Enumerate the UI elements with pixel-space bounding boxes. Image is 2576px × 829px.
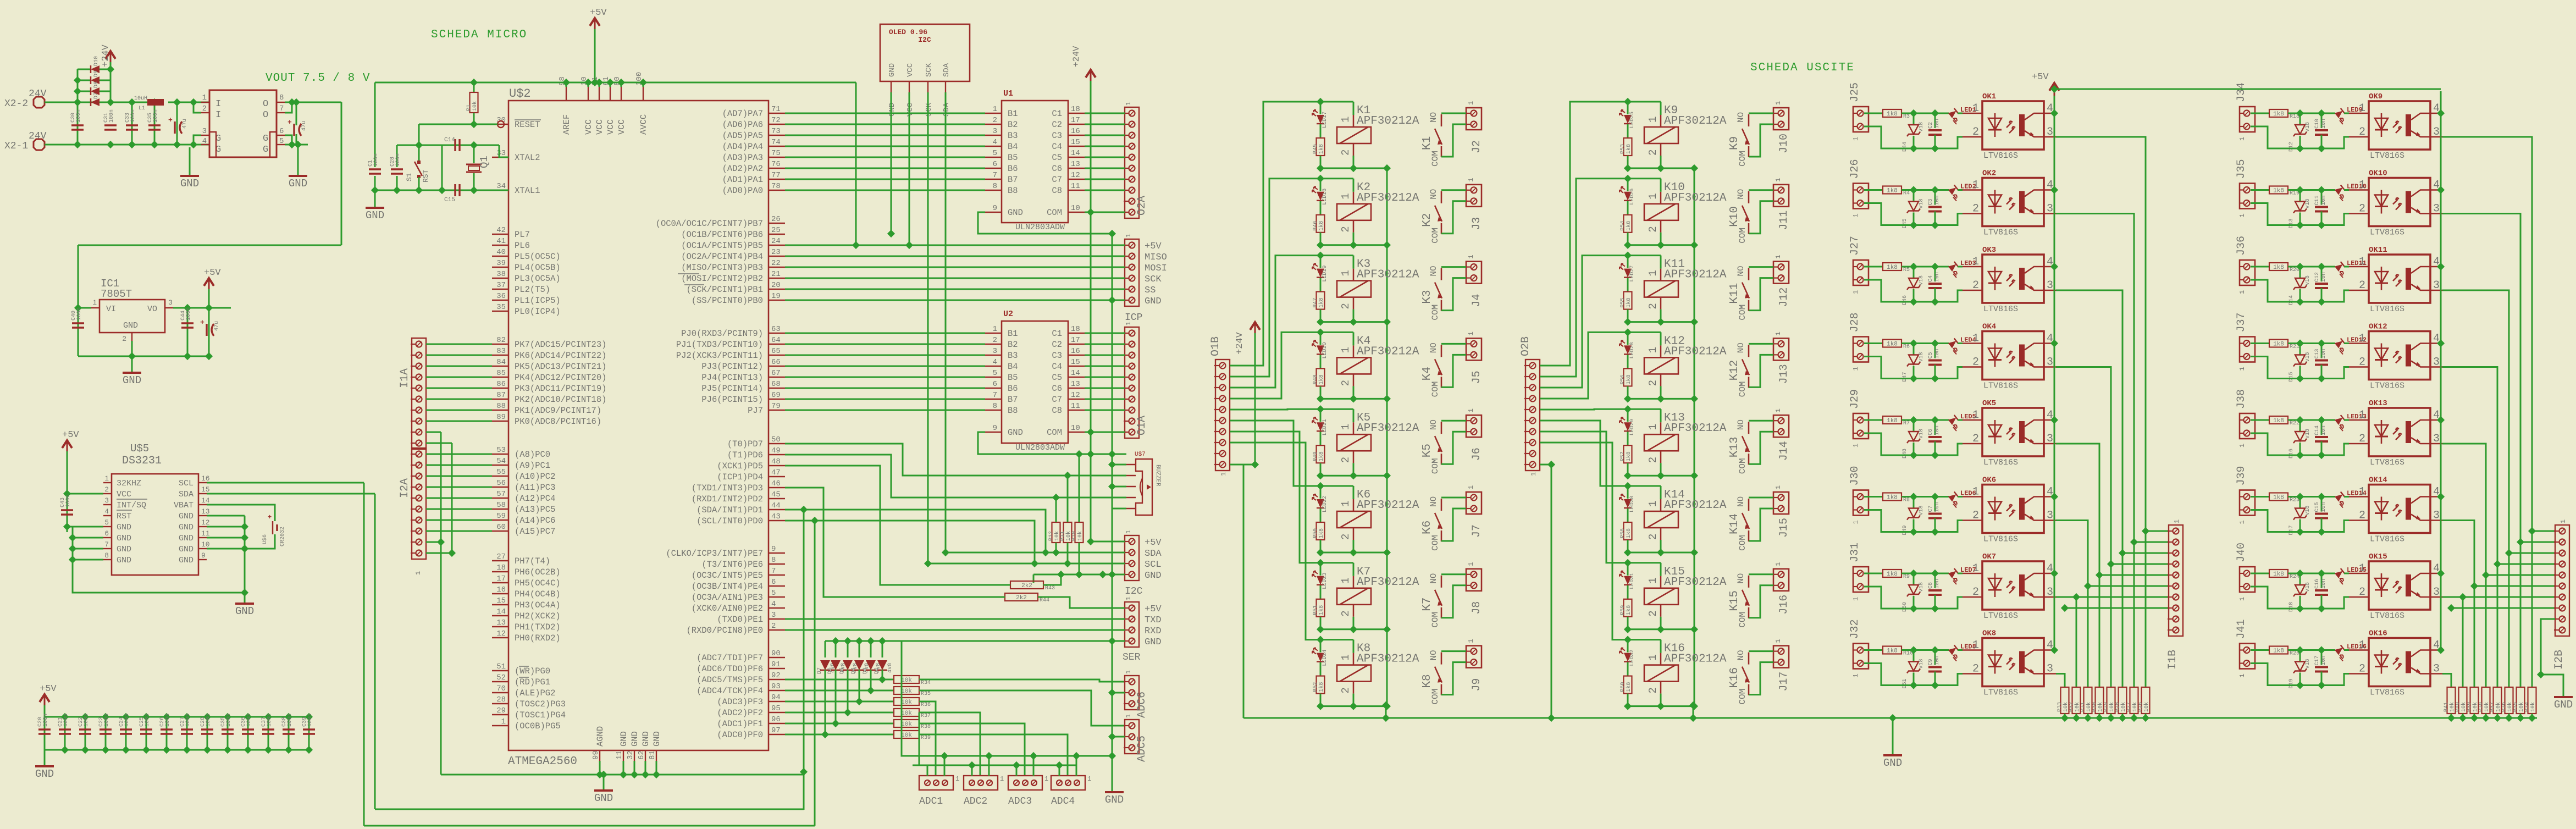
svg-text:10n: 10n (1934, 655, 1941, 665)
svg-text:2: 2 (2359, 356, 2365, 369)
svg-text:D2: D2 (874, 667, 880, 674)
supply +5V IC1 (204, 268, 221, 291)
wire coil top (1660, 179, 1662, 192)
junction (1624, 252, 1632, 259)
svg-text:77: 77 (771, 171, 781, 180)
svg-text:K15: K15 (1728, 590, 1741, 611)
wire (1913, 420, 1915, 432)
resistor R53 (1620, 138, 1632, 156)
svg-text:J37: J37 (2235, 312, 2248, 332)
junction (1931, 493, 1939, 500)
junction (107, 98, 114, 106)
svg-text:PJ7: PJ7 (748, 406, 763, 416)
svg-text:20: 20 (771, 281, 781, 290)
svg-text:79: 79 (771, 402, 781, 411)
LED LED21 (1312, 417, 1328, 435)
wire SCL row (928, 563, 1125, 565)
junction (2437, 263, 2445, 270)
wire (105, 717, 107, 750)
svg-text:13: 13 (201, 507, 210, 516)
wire (1627, 156, 1629, 168)
svg-text:95: 95 (771, 704, 781, 713)
connector J7 (1466, 492, 1482, 514)
wire coil bottom (1353, 310, 1355, 322)
IC1 pin2 (131, 333, 132, 341)
svg-text:3: 3 (2433, 279, 2440, 292)
junction (1690, 395, 1698, 402)
svg-text:100n: 100n (130, 109, 136, 123)
wire (1627, 278, 1629, 292)
contact K2 (1421, 189, 1442, 244)
connector J11 (1773, 185, 1789, 207)
wire (166, 717, 168, 750)
wire reset row (419, 124, 497, 125)
junction (142, 713, 150, 721)
wire bottom node (1320, 475, 1387, 477)
svg-text:91: 91 (771, 660, 781, 669)
junction (1690, 164, 1698, 172)
svg-text:R1: R1 (466, 104, 472, 111)
wire RTC left GND bus (73, 527, 245, 593)
wire (2321, 595, 2323, 609)
connector J12 (1773, 262, 1789, 284)
junction (438, 186, 446, 194)
svg-text:10k: 10k (901, 699, 912, 706)
junction (1383, 703, 1391, 710)
svg-text:23: 23 (771, 248, 781, 257)
svg-text:J13: J13 (1778, 364, 1790, 384)
svg-text:12: 12 (1071, 171, 1080, 180)
wire (1033, 574, 1035, 583)
wire SDA to riser (207, 493, 375, 495)
wire (1627, 256, 1629, 268)
connector ICP (1124, 239, 1139, 306)
junction (74, 304, 82, 312)
indicator LED14 (2335, 491, 2345, 501)
svg-text:B1: B1 (1008, 329, 1018, 339)
svg-text:PJ5(PCINT14): PJ5(PCINT14) (701, 384, 763, 394)
junction (2470, 582, 2478, 590)
svg-text:11: 11 (201, 529, 210, 538)
svg-text:10n: 10n (2321, 425, 2327, 435)
OK8 pins (1963, 639, 2056, 676)
svg-text:LED32: LED32 (1629, 650, 1635, 666)
wire OK5 out (2056, 444, 2099, 687)
svg-text:C6: C6 (1928, 429, 1934, 435)
svg-text:LED29: LED29 (1629, 419, 1635, 435)
relay pin stubs (1660, 576, 1662, 588)
OK12 pins (2349, 333, 2442, 369)
wire NO (1749, 497, 1773, 499)
junction (905, 241, 913, 249)
svg-text:1: 1 (1340, 654, 1352, 660)
svg-text:1: 1 (1775, 178, 1782, 182)
svg-text:R54: R54 (1620, 221, 1626, 231)
wire OK3 out (2056, 290, 2122, 687)
capacitor C22 (78, 714, 91, 734)
wire (1901, 113, 1949, 114)
svg-text:2: 2 (1972, 586, 1979, 599)
wire I2A pin10 (426, 552, 452, 554)
junction (1624, 472, 1632, 479)
svg-text:(ADC2)PF2: (ADC2)PF2 (717, 708, 763, 718)
svg-text:GND: GND (179, 556, 194, 565)
junction (69, 556, 76, 563)
svg-text:COM: COM (1738, 151, 1748, 167)
junction (393, 186, 401, 194)
svg-text:1: 1 (1340, 193, 1352, 199)
regulator IC1 7805T (99, 300, 165, 333)
junction (2107, 560, 2115, 568)
svg-text:7: 7 (279, 104, 284, 113)
svg-text:2: 2 (2359, 663, 2365, 676)
svg-text:1: 1 (1972, 179, 1979, 192)
wire OLED SCK down (927, 92, 929, 563)
svg-text:62: 62 (637, 750, 646, 760)
junction (190, 141, 197, 148)
wire PD3 to R44 (785, 488, 1005, 597)
junction (942, 549, 949, 556)
wire (1627, 409, 1629, 422)
junction (2096, 571, 2103, 579)
svg-text:D51: D51 (1902, 678, 1908, 688)
svg-text:1: 1 (1467, 485, 1475, 489)
resistor R52 (1313, 676, 1325, 694)
junction (2084, 582, 2092, 590)
svg-text:C6: C6 (1052, 384, 1062, 394)
junction (2459, 714, 2467, 722)
svg-text:1: 1 (1972, 256, 1979, 268)
wire (2497, 714, 2498, 718)
svg-text:44: 44 (771, 501, 781, 510)
svg-text:35: 35 (496, 303, 506, 312)
wire bottom node (1320, 244, 1387, 246)
wire (1320, 355, 1322, 368)
svg-text:6: 6 (104, 529, 109, 538)
junction (142, 746, 150, 754)
resistor R22 (2269, 416, 2299, 427)
header O1B (1214, 360, 1230, 471)
capacitor C23 (98, 714, 112, 734)
junction (1889, 714, 1897, 722)
wire bottom return (1864, 126, 1963, 148)
svg-text:XTAL1: XTAL1 (515, 186, 540, 196)
wire drive K5 (1230, 408, 1320, 411)
wire (2321, 190, 2323, 205)
OK4 pins (1963, 333, 2056, 369)
driver U1 ULN2803ADW (1002, 101, 1068, 223)
wire (296, 134, 297, 145)
svg-text:K3: K3 (1421, 290, 1434, 303)
junction (1030, 752, 1037, 760)
contact K14 (1728, 496, 1750, 551)
junction (1087, 208, 1094, 216)
svg-text:OK13: OK13 (2369, 399, 2387, 408)
svg-text:64: 64 (771, 336, 781, 345)
svg-text:R34: R34 (2524, 702, 2530, 712)
connector J15 (1773, 492, 1789, 514)
junction (800, 768, 808, 776)
relay pin stubs (1353, 422, 1355, 434)
svg-text:17: 17 (1071, 336, 1080, 345)
svg-text:1: 1 (1000, 775, 1004, 783)
capacitor C17 (2314, 655, 2328, 671)
wire tap to I1B (2111, 563, 2169, 565)
resistor R34 (2524, 687, 2536, 714)
junction (1073, 752, 1080, 760)
wire ADC1 signal (919, 701, 936, 776)
wire coil bottom (1353, 463, 1355, 476)
wire top node (1320, 408, 1353, 410)
svg-text:J15: J15 (1778, 518, 1790, 538)
junction (2050, 570, 2058, 577)
wire pin4 (2441, 113, 2442, 114)
junction (2318, 109, 2325, 117)
svg-text:13: 13 (1071, 160, 1080, 169)
LED LED18 (1312, 187, 1328, 205)
svg-text:C4: C4 (1928, 275, 1934, 282)
module notch (270, 132, 277, 157)
OK2 pins (1963, 179, 2056, 215)
resistor R7 (1883, 416, 1910, 427)
wire (78, 91, 91, 92)
wire tap to I1B (2088, 585, 2169, 587)
connector J36 (2240, 260, 2255, 285)
svg-text:100n: 100n (186, 307, 192, 320)
svg-text:60: 60 (496, 523, 506, 532)
svg-text:2: 2 (2359, 126, 2365, 139)
wire SCL up (814, 735, 816, 826)
wire SDA net (785, 510, 1046, 552)
junction (1317, 328, 1324, 336)
wire (1958, 342, 1963, 344)
wire pin4 (2054, 113, 2056, 114)
svg-text:+5V: +5V (1145, 604, 1162, 615)
svg-text:NO: NO (1736, 650, 1746, 660)
svg-text:(MISO/PCINT3)PB3: (MISO/PCINT3)PB3 (681, 263, 763, 273)
svg-text:10uH: 10uH (134, 96, 147, 102)
wire (2288, 573, 2335, 574)
wire NO (1749, 113, 1773, 114)
wire xtal bottom rail (375, 190, 508, 191)
svg-text:8: 8 (993, 182, 997, 191)
wire drive K15 (1540, 432, 1628, 563)
svg-text:3: 3 (771, 611, 776, 620)
svg-text:1k8: 1k8 (1626, 221, 1632, 231)
svg-text:I2C: I2C (1125, 586, 1143, 597)
junction (2494, 714, 2501, 722)
svg-text:1k8: 1k8 (2273, 264, 2284, 271)
svg-text:10k: 10k (2461, 702, 2467, 712)
svg-text:(A9)PC1: (A9)PC1 (515, 461, 550, 471)
wire SER GND / zener bus (825, 640, 1125, 642)
svg-text:2: 2 (1340, 687, 1352, 693)
svg-text:SDA: SDA (942, 63, 951, 77)
svg-text:1k8: 1k8 (2273, 341, 2284, 348)
wire (1320, 233, 1322, 245)
wire (2288, 266, 2335, 268)
junction (600, 771, 607, 778)
wire +5V to caps (374, 82, 376, 167)
svg-text:+5V: +5V (1145, 538, 1162, 548)
svg-text:2: 2 (1647, 380, 1659, 386)
svg-text:14: 14 (1071, 149, 1080, 158)
resistor R45 (1313, 138, 1325, 156)
svg-text:6: 6 (993, 380, 997, 389)
junction (1910, 298, 1917, 306)
resistor R23 (2269, 493, 2299, 504)
svg-text:v18: v18 (1919, 275, 1925, 285)
junction (642, 771, 649, 778)
junction (821, 731, 829, 738)
zener diode D16 (2288, 429, 2311, 458)
junction (2505, 714, 2513, 722)
svg-text:GND: GND (641, 731, 651, 747)
svg-text:D50: D50 (1902, 602, 1908, 612)
junction (151, 98, 158, 106)
svg-text:K6: K6 (1421, 521, 1434, 534)
junction (2130, 714, 2138, 722)
svg-text:D7: D7 (93, 92, 99, 99)
wire (1958, 573, 1963, 574)
wire J in (1864, 573, 1883, 574)
junction (1108, 461, 1116, 468)
svg-text:GND: GND (1883, 757, 1902, 769)
junction (102, 713, 109, 721)
svg-text:(A14)PC6: (A14)PC6 (515, 516, 555, 526)
wire J in (1864, 649, 1883, 651)
capacitor C5 (1928, 349, 1942, 364)
svg-text:APF30212A: APF30212A (1664, 192, 1727, 205)
junction (1931, 416, 1939, 424)
svg-text:C5: C5 (1928, 352, 1934, 358)
svg-text:2: 2 (1340, 303, 1352, 309)
junction (1075, 571, 1083, 578)
junction (1624, 328, 1632, 336)
connector J9 (1466, 646, 1482, 668)
svg-text:AGND: AGND (595, 726, 605, 747)
junction (855, 698, 863, 705)
svg-text:APF30212A: APF30212A (1357, 192, 1419, 205)
buzzer U$7 (1135, 451, 1161, 515)
svg-text:R38: R38 (2478, 702, 2484, 712)
svg-text:(TOSC2)PG3: (TOSC2)PG3 (515, 699, 566, 709)
svg-text:U2: U2 (1003, 310, 1013, 319)
svg-text:100n: 100n (84, 714, 90, 727)
svg-text:4: 4 (104, 507, 109, 516)
svg-text:1: 1 (1647, 117, 1659, 123)
crystal Q1 (466, 156, 490, 172)
svg-text:LED23: LED23 (1322, 573, 1328, 589)
wire (441, 145, 443, 190)
wire COM (1749, 662, 1773, 695)
optocoupler OK2 LTV816S (1982, 169, 2044, 237)
junction (1055, 761, 1063, 769)
wire (2299, 420, 2301, 432)
junction (811, 517, 819, 524)
relay K16 APF30212A (1644, 643, 1727, 694)
wire (2321, 518, 2323, 532)
OK3 pins (1963, 256, 2056, 292)
svg-text:76: 76 (771, 160, 781, 169)
indicator LED5 (1948, 415, 1958, 425)
junction (224, 746, 231, 754)
capacitor C15 (455, 184, 460, 196)
wire (859, 641, 860, 657)
junction (2318, 416, 2325, 424)
svg-text:PJ2(XCK3/PCINT11): PJ2(XCK3/PCINT11) (676, 351, 763, 361)
svg-text:OLED 0.96: OLED 0.96 (889, 28, 927, 36)
svg-text:58: 58 (496, 501, 506, 510)
svg-text:2: 2 (1972, 126, 1979, 139)
junction (1657, 241, 1665, 249)
wire drive K9 (1540, 102, 1628, 366)
wire pin7 (285, 102, 292, 113)
junction (1931, 681, 1939, 689)
wires I2A to PC pins (426, 454, 492, 531)
capacitor C37 (261, 714, 274, 734)
wire GND rail (1112, 234, 1113, 792)
resistor R18 (2269, 109, 2299, 120)
svg-text:97: 97 (771, 726, 781, 735)
svg-text:J34: J34 (2235, 82, 2248, 102)
relay K7 APF30212A (1337, 566, 1419, 617)
wire relay common rail (1694, 168, 1695, 706)
svg-text:GND: GND (117, 523, 131, 532)
svg-text:1k8: 1k8 (1318, 374, 1325, 384)
svg-text:2: 2 (202, 104, 207, 113)
svg-text:88: 88 (496, 402, 506, 411)
wire (186, 717, 188, 750)
svg-text:AVCC: AVCC (639, 114, 649, 135)
wire tap to I2B (2532, 530, 2555, 532)
capacitor C35 (147, 109, 161, 130)
wire COM (1441, 278, 1466, 311)
junction (81, 713, 89, 721)
svg-text:SCL: SCL (1145, 560, 1162, 570)
svg-text:LTV816S: LTV816S (1983, 458, 2018, 467)
svg-text:OK15: OK15 (2369, 552, 2387, 561)
svg-text:47u: 47u (214, 321, 220, 331)
wire TXD (785, 618, 1125, 620)
svg-text:16: 16 (201, 474, 210, 483)
wire top node (1628, 331, 1661, 333)
svg-text:40: 40 (496, 248, 506, 257)
wire J in (1864, 189, 1883, 191)
optocoupler OK5 LTV816S (1982, 399, 2044, 467)
svg-text:R32: R32 (2069, 702, 2075, 712)
wire U2 GND (978, 432, 1126, 454)
svg-text:37: 37 (496, 281, 506, 290)
svg-text:(AD2)PA2: (AD2)PA2 (722, 164, 763, 174)
svg-text:+24V: +24V (1071, 46, 1081, 67)
svg-text:v18: v18 (1919, 122, 1925, 132)
svg-text:C5: C5 (1052, 373, 1062, 383)
wire (2462, 714, 2464, 718)
wire (2299, 519, 2301, 532)
svg-text:1: 1 (104, 474, 109, 483)
wire (374, 190, 376, 207)
wire drive K11 (1540, 256, 1628, 388)
wire (1934, 573, 1936, 588)
svg-text:R31: R31 (2080, 702, 2086, 712)
svg-text:v18: v18 (1919, 352, 1925, 362)
svg-text:1: 1 (1340, 424, 1352, 430)
capacitor C44 (180, 307, 194, 328)
wire (2299, 673, 2301, 686)
svg-text:COM: COM (1430, 689, 1440, 705)
svg-text:D5: D5 (839, 667, 845, 674)
